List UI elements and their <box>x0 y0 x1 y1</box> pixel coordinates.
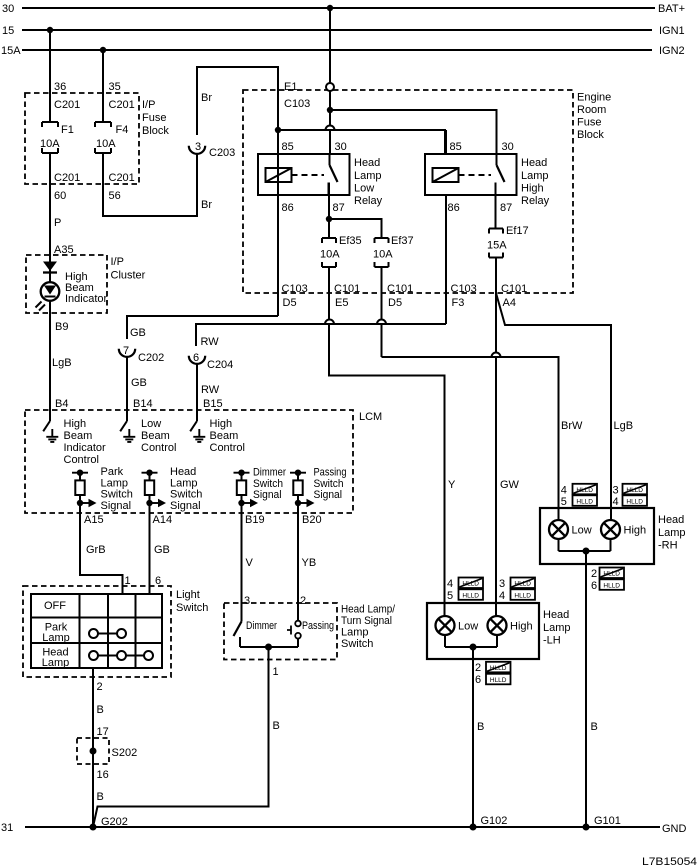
wire high 86 C103 F3 RW to C204 with hops <box>196 283 477 348</box>
wire IGN1 to fuse F1, pin 36 C201 <box>50 30 80 122</box>
sensor park lamp switch signal <box>72 466 133 512</box>
svg-text:Switch: Switch <box>170 489 202 501</box>
splice S202 <box>77 738 137 764</box>
sensor head lamp switch signal <box>142 466 203 512</box>
svg-text:Lamp: Lamp <box>658 527 686 539</box>
svg-text:85: 85 <box>282 141 294 153</box>
wire low 86 out C103 D5 GB to C202 <box>127 283 308 339</box>
svg-text:15: 15 <box>2 25 14 37</box>
svg-text:C202: C202 <box>138 352 164 364</box>
sensor dimmer switch signal <box>234 467 287 508</box>
light switch box <box>23 586 208 677</box>
svg-text:C103: C103 <box>451 283 477 295</box>
svg-text:B: B <box>477 721 484 733</box>
svg-text:G102: G102 <box>481 815 508 827</box>
wire B9 LgB B4 <box>50 301 72 421</box>
junction G101 <box>583 824 590 831</box>
junction on bus 15 <box>47 27 53 33</box>
svg-text:Ef17: Ef17 <box>506 225 529 237</box>
wire B20 YB to passing pin 2 <box>298 503 322 621</box>
wire LH B to G102 <box>473 647 507 827</box>
svg-text:-LH: -LH <box>543 635 561 647</box>
junction RH <box>583 548 590 555</box>
RH lamp bus <box>559 539 611 551</box>
svg-text:3: 3 <box>195 141 201 153</box>
I/P cluster box <box>26 255 146 313</box>
fuse Ef17 15A <box>487 225 529 258</box>
svg-text:Block: Block <box>577 129 604 141</box>
svg-text:10A: 10A <box>96 138 116 150</box>
svg-text:3: 3 <box>613 485 619 497</box>
svg-text:Control: Control <box>141 442 176 454</box>
wire A15 GrB to light switch pin 1 <box>80 503 131 594</box>
svg-text:Switch: Switch <box>253 478 283 490</box>
svg-text:Lamp: Lamp <box>354 170 382 182</box>
I/P fuse block box <box>25 93 169 184</box>
svg-text:OFF: OFF <box>44 600 66 612</box>
svg-text:Passing: Passing <box>314 467 347 479</box>
svg-text:Passing: Passing <box>302 620 334 632</box>
svg-text:2: 2 <box>475 662 481 674</box>
svg-text:GB: GB <box>154 544 170 556</box>
svg-text:BrW: BrW <box>561 420 583 432</box>
wire GB to B14 <box>127 357 153 421</box>
junction 85 feed <box>275 127 281 133</box>
head contacts <box>89 651 153 660</box>
engine room fuse block box <box>243 90 611 293</box>
wire low coil 85-86 through relay <box>277 130 279 316</box>
fuse Ef35 10A <box>320 235 362 267</box>
svg-text:P: P <box>54 217 61 229</box>
wire F1 out, C201 60, P, to A35 <box>50 153 80 282</box>
svg-text:BAT+: BAT+ <box>658 3 685 15</box>
svg-text:L7B15054: L7B15054 <box>642 856 697 866</box>
svg-text:16: 16 <box>97 769 109 781</box>
svg-text:C201: C201 <box>109 99 135 111</box>
wire A14 GB to light switch pin 6 <box>150 503 173 594</box>
svg-text:IGN1: IGN1 <box>659 25 685 37</box>
wire BAT+ down to low relay pin 30 <box>329 8 331 154</box>
LH lamp bus <box>445 635 497 647</box>
svg-text:D5: D5 <box>388 297 402 309</box>
svg-text:GND: GND <box>662 823 687 835</box>
svg-text:Signal: Signal <box>253 489 282 501</box>
wire RH B to G101 <box>586 551 621 827</box>
svg-text:IGN2: IGN2 <box>659 45 685 57</box>
LCM box <box>25 410 382 513</box>
wire high coil 85-86 through relay <box>445 130 447 324</box>
RH low lamp <box>549 520 592 539</box>
svg-text:86: 86 <box>448 202 460 214</box>
svg-text:B9: B9 <box>55 321 68 333</box>
svg-text:Switch: Switch <box>176 602 208 614</box>
switch low beam control <box>120 418 176 454</box>
svg-text:Indicator: Indicator <box>64 442 107 454</box>
svg-text:Head Lamp/: Head Lamp/ <box>341 604 396 616</box>
svg-text:GW: GW <box>500 479 520 491</box>
svg-text:B: B <box>273 720 280 732</box>
svg-text:Engine: Engine <box>577 92 611 104</box>
svg-text:Room: Room <box>577 104 606 116</box>
svg-text:Dimmer: Dimmer <box>253 467 286 479</box>
svg-text:B15: B15 <box>203 398 223 410</box>
svg-text:86: 86 <box>282 202 294 214</box>
svg-text:GB: GB <box>131 377 147 389</box>
svg-text:RW: RW <box>201 336 220 348</box>
svg-text:10A: 10A <box>40 138 60 150</box>
svg-text:Br: Br <box>201 199 212 211</box>
connector E1 C103 <box>284 81 334 110</box>
bus 30 BAT+ <box>2 3 685 15</box>
light switch grid <box>31 594 162 669</box>
svg-text:C201: C201 <box>54 99 80 111</box>
svg-text:Turn Signal: Turn Signal <box>341 615 392 627</box>
svg-text:High: High <box>624 525 647 537</box>
svg-text:A4: A4 <box>503 297 516 309</box>
junction on bus 30 <box>327 5 333 11</box>
svg-text:RW: RW <box>201 384 220 396</box>
svg-text:Low: Low <box>458 621 478 633</box>
svg-text:Light: Light <box>176 589 200 601</box>
head lamp LH box <box>427 603 571 659</box>
wire RW to B15 <box>197 364 223 421</box>
junction G202 <box>90 824 97 831</box>
wire pin 1 B to G202 <box>93 647 280 827</box>
svg-text:Head: Head <box>658 514 684 526</box>
switch high beam control <box>190 418 245 454</box>
svg-text:B4: B4 <box>55 398 68 410</box>
svg-text:I/P: I/P <box>111 256 124 268</box>
svg-text:2: 2 <box>97 681 103 693</box>
svg-text:Ef35: Ef35 <box>339 235 362 247</box>
LH low lamp <box>436 616 479 635</box>
svg-text:Switch: Switch <box>314 478 344 490</box>
svg-text:Lamp: Lamp <box>101 477 129 489</box>
RH high lamp <box>601 520 646 539</box>
svg-text:C101: C101 <box>501 283 527 295</box>
svg-text:LgB: LgB <box>614 420 634 432</box>
svg-text:2: 2 <box>300 595 306 607</box>
svg-text:Head: Head <box>521 157 547 169</box>
svg-text:B: B <box>97 791 104 803</box>
svg-text:I/P: I/P <box>142 99 155 111</box>
dimmer switch <box>234 620 278 647</box>
svg-text:Switch: Switch <box>101 489 133 501</box>
svg-text:Low: Low <box>572 525 592 537</box>
junction <box>265 644 272 651</box>
svg-text:V: V <box>246 557 254 569</box>
bus 15 IGN1 <box>2 25 685 37</box>
svg-text:30: 30 <box>502 141 514 153</box>
svg-text:Lamp: Lamp <box>341 627 369 639</box>
svg-text:Indicator: Indicator <box>65 293 108 305</box>
wire Ef35 out C101 E5 to Y <box>329 267 456 616</box>
dimmer passing box: Head Lamp/Turn Signal Lamp Switch <box>224 603 396 660</box>
svg-text:A15: A15 <box>84 514 104 526</box>
svg-text:Beam: Beam <box>141 430 170 442</box>
connector C203 pin 3 <box>189 141 235 159</box>
svg-text:31: 31 <box>1 822 13 834</box>
wire pin 2 B 17 S202 16 B to G202 <box>93 668 128 828</box>
svg-text:B14: B14 <box>133 398 153 410</box>
switch high beam indicator control <box>43 418 106 466</box>
passing switch <box>287 620 334 647</box>
svg-text:D5: D5 <box>283 297 297 309</box>
svg-text:High: High <box>64 418 87 430</box>
LH high lamp <box>488 616 533 635</box>
fuse Ef37 10A <box>373 235 414 267</box>
svg-text:High: High <box>510 621 533 633</box>
svg-text:C201: C201 <box>54 172 80 184</box>
svg-text:Low: Low <box>141 418 161 430</box>
svg-text:Signal: Signal <box>101 500 132 512</box>
svg-text:Switch: Switch <box>341 638 373 650</box>
svg-text:30: 30 <box>335 141 347 153</box>
svg-text:Control: Control <box>64 454 99 466</box>
svg-text:F4: F4 <box>116 124 129 136</box>
svg-text:17: 17 <box>97 726 109 738</box>
svg-text:5: 5 <box>561 496 567 508</box>
svg-text:10A: 10A <box>373 249 393 261</box>
relay low: Head Lamp Low Relay <box>258 141 383 214</box>
bus 15A IGN2 <box>1 45 685 57</box>
connector labels RH low 4/5 HLLD <box>561 484 597 508</box>
svg-text:Lamp: Lamp <box>170 477 198 489</box>
svg-text:B: B <box>591 721 598 733</box>
svg-text:G202: G202 <box>101 816 128 828</box>
svg-text:6: 6 <box>475 674 481 686</box>
svg-text:Lamp: Lamp <box>521 170 549 182</box>
wire Ef37 out C101 D5 to BrW with hop <box>382 267 414 357</box>
svg-text:Head: Head <box>170 466 196 478</box>
connector labels RH high 3/4 HLLD <box>613 484 648 508</box>
svg-text:30: 30 <box>2 3 14 15</box>
svg-text:G101: G101 <box>594 815 621 827</box>
svg-text:87: 87 <box>333 202 345 214</box>
svg-text:C204: C204 <box>207 359 233 371</box>
svg-text:Ef37: Ef37 <box>391 235 414 247</box>
wire IGN2 to fuse F4, pin 35 C201 <box>103 50 135 122</box>
junction node BAT feed <box>327 107 333 113</box>
svg-text:Head: Head <box>543 609 569 621</box>
svg-text:F3: F3 <box>452 297 465 309</box>
connector labels LH low 4/5 HLLD <box>447 578 483 602</box>
svg-text:10A: 10A <box>320 249 340 261</box>
svg-text:Lamp: Lamp <box>42 657 70 669</box>
svg-text:15A: 15A <box>1 45 21 57</box>
head lamp RH box <box>540 508 686 564</box>
svg-text:Cluster: Cluster <box>111 270 146 282</box>
svg-text:15A: 15A <box>487 240 507 252</box>
svg-text:6: 6 <box>591 580 597 592</box>
svg-text:E5: E5 <box>335 297 348 309</box>
svg-text:YB: YB <box>302 557 317 569</box>
high beam indicator LED <box>36 262 108 311</box>
svg-text:Fuse: Fuse <box>142 112 166 124</box>
svg-text:B: B <box>97 704 104 716</box>
svg-text:A14: A14 <box>153 514 173 526</box>
svg-text:GrB: GrB <box>86 544 106 556</box>
connector labels LH high 3/4 HLLD <box>499 578 535 602</box>
svg-text:High: High <box>210 418 233 430</box>
fuse F1 10A <box>40 122 74 153</box>
svg-text:Block: Block <box>142 125 169 137</box>
svg-text:B19: B19 <box>245 514 265 526</box>
svg-text:C103: C103 <box>284 98 310 110</box>
svg-text:3: 3 <box>499 578 505 590</box>
park contacts <box>89 629 126 638</box>
switch output bus <box>240 646 298 648</box>
fuse F4 10A <box>95 122 128 153</box>
wire Br from C203 up to relay feed <box>197 67 278 135</box>
svg-text:Lamp: Lamp <box>543 622 571 634</box>
junction G102 <box>470 824 477 831</box>
svg-text:E1: E1 <box>284 81 297 93</box>
svg-text:56: 56 <box>109 190 121 202</box>
wire B19 V to dimmer pin 3 <box>242 503 265 622</box>
svg-text:Dimmer: Dimmer <box>246 620 277 632</box>
svg-text:Fuse: Fuse <box>577 117 601 129</box>
svg-text:5: 5 <box>447 590 453 602</box>
svg-text:GB: GB <box>130 327 146 339</box>
svg-text:S202: S202 <box>112 747 138 759</box>
svg-text:Y: Y <box>448 479 456 491</box>
svg-text:60: 60 <box>54 190 66 202</box>
svg-text:F1: F1 <box>61 124 74 136</box>
svg-text:C201: C201 <box>109 172 135 184</box>
svg-text:4: 4 <box>499 590 505 602</box>
svg-text:Head: Head <box>354 157 380 169</box>
wire low 87 to fuses <box>328 183 330 239</box>
svg-text:3: 3 <box>244 595 250 607</box>
svg-text:1: 1 <box>273 666 279 678</box>
svg-text:36: 36 <box>54 81 66 93</box>
bus 31 GND <box>1 822 687 835</box>
wire Ef17 out C101 A4 to GW <box>496 258 527 616</box>
svg-text:C103: C103 <box>282 283 308 295</box>
svg-text:C101: C101 <box>387 283 413 295</box>
svg-text:87: 87 <box>500 202 512 214</box>
svg-text:Control: Control <box>210 442 245 454</box>
connector C204 pin 6 <box>189 352 233 371</box>
junction on bus 15A <box>100 47 106 53</box>
svg-text:2: 2 <box>591 568 597 580</box>
svg-text:Signal: Signal <box>170 500 201 512</box>
connector labels RH gnd 2/6 HLLD <box>591 568 624 593</box>
svg-text:-RH: -RH <box>658 540 678 552</box>
junction 87 low <box>326 216 332 222</box>
svg-text:Beam: Beam <box>210 430 239 442</box>
svg-text:Park: Park <box>101 466 124 478</box>
svg-text:35: 35 <box>109 81 121 93</box>
relay high: Head Lamp High Relay <box>425 141 550 214</box>
junction LH <box>470 644 477 651</box>
svg-text:C101: C101 <box>334 283 360 295</box>
svg-text:Relay: Relay <box>521 195 550 207</box>
wire F4 out C201 56 to C203 <box>103 153 212 216</box>
svg-text:B20: B20 <box>302 514 322 526</box>
wire high 87 to Ef17 <box>495 183 497 229</box>
svg-text:85: 85 <box>450 141 462 153</box>
svg-text:Beam: Beam <box>64 430 93 442</box>
svg-text:Low: Low <box>354 183 374 195</box>
svg-text:6: 6 <box>193 352 199 364</box>
svg-text:LgB: LgB <box>52 357 72 369</box>
branch to Ef37 <box>329 219 382 238</box>
svg-text:4: 4 <box>561 485 567 497</box>
connector C202 pin 7 <box>119 345 164 364</box>
connector labels LH gnd 2/6 HLLD <box>475 662 511 686</box>
sensor passing switch signal <box>290 467 347 508</box>
svg-text:Br: Br <box>201 92 212 104</box>
wire 85 feed with hop <box>278 126 445 155</box>
svg-text:Relay: Relay <box>354 195 383 207</box>
svg-text:Lamp: Lamp <box>42 632 70 644</box>
svg-text:Signal: Signal <box>314 489 343 501</box>
wire to high relay pin 30 <box>330 110 497 154</box>
wire A4 branch LgB to RH high <box>496 293 633 520</box>
svg-text:7: 7 <box>123 345 129 357</box>
svg-text:4: 4 <box>447 578 453 590</box>
wire BrW from Ef37 to RH low with hop over GW <box>382 353 584 520</box>
svg-text:High: High <box>521 183 544 195</box>
svg-text:LCM: LCM <box>359 411 382 423</box>
svg-text:4: 4 <box>613 496 619 508</box>
svg-text:C203: C203 <box>209 147 235 159</box>
